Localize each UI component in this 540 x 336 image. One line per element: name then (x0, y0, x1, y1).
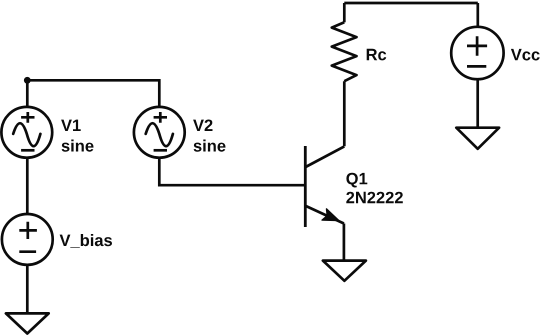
sine source V1 (1, 107, 52, 158)
wire V_bias to ground (26, 265, 29, 314)
label V_bias (60, 234, 112, 248)
transistor Q1 (305, 146, 344, 227)
wire top rail to Rc (343, 3, 346, 22)
label 2N2222 (346, 192, 403, 204)
label Vcc (511, 49, 540, 61)
wire top rail (344, 2, 478, 5)
label V2 (193, 120, 212, 132)
sine source V2 (134, 107, 185, 158)
label sine (V1) (62, 140, 94, 152)
label Rc (367, 49, 387, 61)
wire Rc to collector (343, 81, 346, 146)
label Q1 (346, 173, 367, 188)
wire emitter to ground (343, 224, 346, 261)
ground (V_bias) (6, 313, 49, 333)
voltage source V_bias (2, 214, 53, 265)
voltage source Vcc (451, 27, 503, 79)
node A junction dot (24, 77, 31, 84)
label sine (V2) (194, 140, 226, 152)
ground (Vcc) (456, 128, 499, 149)
ground (emitter) (323, 261, 366, 281)
resistor Rc (332, 22, 357, 81)
label V1 (61, 120, 81, 131)
wire node A to V1 (26, 80, 29, 107)
wire node A to V2 (27, 80, 159, 107)
wire V2 to base (159, 158, 306, 186)
wire top rail to Vcc (476, 3, 479, 27)
wire Vcc to ground (476, 79, 479, 128)
wire V1 to V_bias (26, 158, 29, 214)
